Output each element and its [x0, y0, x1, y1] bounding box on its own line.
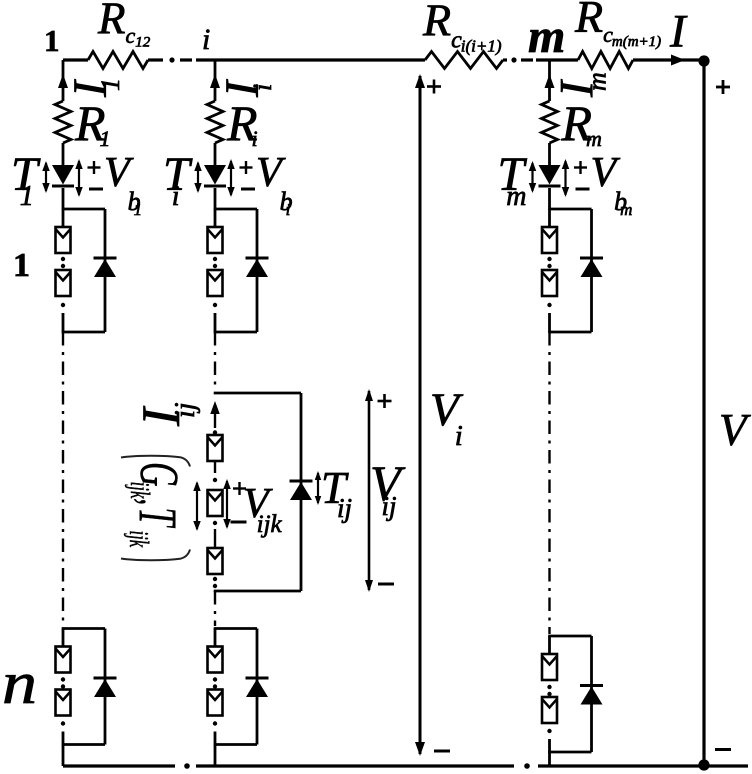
svg-text:1: 1 — [44, 23, 60, 58]
svg-text:n: n — [2, 650, 37, 716]
svg-text:I: I — [669, 6, 688, 58]
svg-text:1: 1 — [13, 247, 30, 284]
svg-text:Gijk,: Gijk, — [125, 462, 190, 505]
svg-text:m: m — [528, 10, 565, 63]
svg-text:R1: R1 — [74, 95, 111, 151]
svg-text:Ii: Ii — [216, 79, 277, 98]
svg-text:V: V — [719, 405, 751, 455]
svg-text:Ri: Ri — [226, 95, 258, 151]
svg-text:i: i — [202, 23, 210, 56]
